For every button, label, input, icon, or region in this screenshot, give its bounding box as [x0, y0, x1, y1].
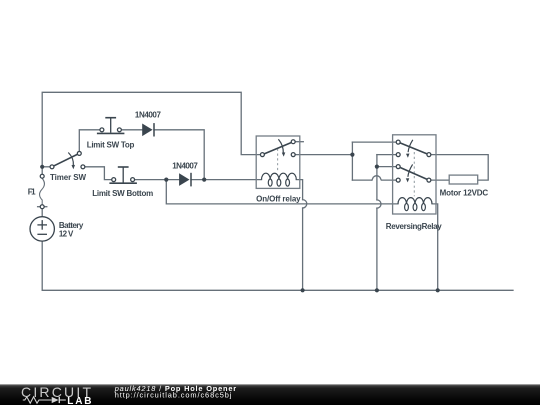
svg-text:Limit SW Top: Limit SW Top: [87, 140, 135, 149]
svg-text:Motor 12VDC: Motor 12VDC: [440, 188, 489, 197]
svg-text:Battery: Battery: [59, 221, 84, 230]
svg-text:1N4007: 1N4007: [135, 111, 162, 120]
svg-text:1N4007: 1N4007: [172, 161, 198, 170]
svg-text:ReversingRelay: ReversingRelay: [386, 222, 442, 231]
svg-text:http://circuitlab.com/c68c5bj: http://circuitlab.com/c68c5bj: [115, 391, 232, 400]
svg-text:12 V: 12 V: [59, 230, 74, 239]
svg-text:Limit SW Bottom: Limit SW Bottom: [92, 189, 153, 198]
svg-text:LAB: LAB: [67, 396, 91, 405]
svg-text:On/Off relay: On/Off relay: [256, 195, 301, 204]
svg-text:Timer SW: Timer SW: [50, 173, 86, 182]
svg-text:F1: F1: [28, 187, 36, 196]
